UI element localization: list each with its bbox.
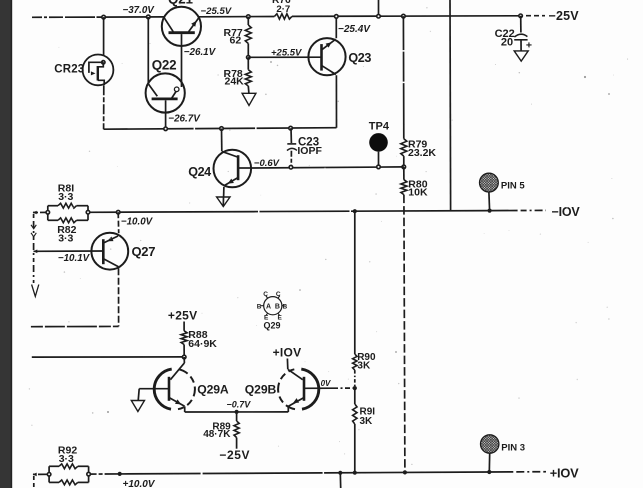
- svg-text:Q21: Q21: [168, 0, 193, 6]
- diode CR23 source hook: [98, 80, 104, 85]
- node junction +10V rail / R91: [353, 471, 357, 475]
- svg-text:−0.6V: −0.6V: [254, 158, 280, 169]
- svg-text:−10.1V: −10.1V: [58, 253, 91, 264]
- node junction R90/R91/Q29B base: [353, 386, 357, 390]
- svg-text:+10.0V: +10.0V: [123, 479, 156, 488]
- wire R91 top lead: [354, 388, 356, 404]
- svg-text:PIN 5: PIN 5: [501, 181, 525, 192]
- node junction top rail / Q23 emitter: [335, 15, 339, 19]
- resistor R78 body: [245, 70, 251, 86]
- wire R90 bottom lead: [354, 370, 356, 388]
- svg-text:−25.4V: −25.4V: [338, 24, 371, 35]
- node junction mid-rail / Q22 emitter: [164, 127, 168, 131]
- capacitor C23 curved plate: [287, 148, 297, 150]
- wire CR23 top lead: [103, 17, 105, 55]
- resistor pair R81/R82 left edge: [47, 206, 49, 221]
- transistor Q27 emitter diagonal: [104, 236, 118, 243]
- wire row to Q29A collector: [32, 356, 184, 358]
- diode CR23 gate path with arrow: [89, 62, 103, 73]
- wire Q29A emitter lead down: [184, 406, 186, 412]
- resistor R82 bottom edge with body: [48, 219, 58, 221]
- capacitor C22 top lead: [520, 16, 522, 33]
- transistor Q29B emitter arrowhead: [293, 398, 299, 403]
- wire R88 bottom lead: [183, 345, 185, 358]
- chevron 2 on left vertical: [31, 233, 36, 237]
- transistor Q24 base diagonal: [222, 151, 238, 157]
- transistor Q29B emitter diagonal: [288, 398, 303, 407]
- wire Q23 collector lead down: [335, 75, 337, 127]
- svg-text:20: 20: [501, 37, 513, 49]
- svg-text:TP4: TP4: [369, 120, 390, 132]
- wire PIN 5 lead: [488, 192, 491, 211]
- node R92/R93 right: [87, 472, 91, 476]
- svg-text:Q27: Q27: [132, 244, 156, 259]
- wire top -25V rail left segment: [32, 16, 164, 18]
- svg-text:B: B: [283, 303, 288, 310]
- svg-text:Q22: Q22: [152, 58, 177, 73]
- wire inside Q24 ground: [222, 197, 224, 206]
- svg-text:64·9K: 64·9K: [188, 338, 217, 350]
- wire R77 bottom lead: [247, 44, 249, 58]
- node junction R77/R78/Q23 base: [247, 56, 251, 60]
- diagram Q29 pin stub right: [282, 305, 285, 307]
- transistor Q27 base bar: [102, 239, 105, 264]
- node junction top rail / top stub: [377, 14, 381, 18]
- transistor Q21 circle: [162, 7, 201, 46]
- wire Q22 left lead from top rail: [147, 17, 149, 84]
- svg-text:Q23: Q23: [348, 51, 371, 65]
- transistor Q29A outer heavy arc (left): [154, 369, 171, 409]
- svg-text:A: A: [266, 304, 271, 311]
- svg-text:3K: 3K: [357, 361, 371, 372]
- svg-text:B: B: [257, 303, 262, 310]
- transistor Q21 emitter diagonal: [189, 17, 200, 31]
- svg-text:+25V: +25V: [168, 309, 198, 323]
- capacitor C23 top lead: [290, 128, 292, 143]
- transistor Q22 collector terminal circle: [174, 87, 179, 92]
- wire Q29 emitter rail (-0.7V): [185, 411, 289, 413]
- svg-text:C: C: [276, 291, 281, 298]
- wire Q24 base lead from mid-rail: [221, 129, 223, 152]
- wire Q27 emitter lead from rail (dashed): [117, 212, 120, 233]
- transistor Q23 emitter diagonal: [322, 39, 336, 50]
- svg-text:R76: R76: [272, 0, 291, 6]
- capacitor C23 straight plate: [287, 143, 296, 145]
- svg-text:3·3: 3·3: [58, 191, 73, 203]
- wire -10V rail left stub: [33, 211, 48, 213]
- wire +10V rail: [89, 472, 490, 474]
- transistor Q21 base bar: [169, 31, 195, 34]
- ground below R78: [242, 93, 256, 105]
- resistor R79 body: [401, 139, 407, 156]
- svg-text:62: 62: [230, 35, 242, 47]
- svg-text:−25V: −25V: [549, 9, 580, 23]
- transistor Q29A base bar: [168, 377, 171, 401]
- wire -10V rail: [88, 211, 490, 213]
- transistor Q23 collector diagonal: [322, 66, 336, 75]
- resistor R88 body: [181, 331, 187, 345]
- wire R78 bottom lead: [247, 86, 250, 93]
- wire R78 top lead: [247, 57, 249, 69]
- svg-text:Q29B: Q29B: [245, 383, 277, 397]
- wire R89 bottom lead: [236, 438, 238, 449]
- wire R88 top lead: [183, 322, 185, 331]
- node junction R79/R80/-0.6V wire: [402, 165, 406, 169]
- svg-text:10K: 10K: [408, 187, 428, 199]
- capacitor C22 curved plate: [514, 34, 527, 37]
- node junction -10V rail / Q27 emitter column: [116, 210, 120, 214]
- transistor Q22 collector diagonal: [172, 92, 176, 99]
- resistor R81 top edge with body: [48, 205, 58, 207]
- svg-text:IOPF: IOPF: [297, 145, 322, 157]
- transistor Q29A dashed arc (right): [178, 369, 195, 409]
- transistor Q29B outer heavy arc (right): [301, 369, 318, 409]
- transistor Q27 circle: [91, 233, 128, 270]
- wire R89 top lead: [236, 412, 238, 421]
- resistor R80 body: [401, 180, 407, 195]
- arrow left end of Q27 base wire: [33, 250, 37, 254]
- arrow left end of +10V rail: [33, 473, 37, 477]
- svg-text:CR23: CR23: [54, 64, 84, 76]
- wire R80 top lead: [403, 167, 405, 180]
- transistor Q22 circle: [146, 73, 185, 112]
- wire Q29A ground branch: [138, 389, 139, 401]
- wire left-edge dashed vertical: [33, 214, 35, 283]
- svg-text:+IOV: +IOV: [550, 466, 579, 481]
- svg-text:0V: 0V: [321, 379, 331, 388]
- svg-text:24K: 24K: [225, 76, 245, 88]
- diagram Q29 pin stub bottom-left: [266, 313, 268, 315]
- resistor pair R81/R82 right edge: [87, 206, 89, 221]
- resistor pair R92/R93 right edge: [88, 466, 90, 482]
- node R92/R93 left: [47, 473, 51, 477]
- resistor R89 body: [234, 421, 239, 438]
- svg-text:3·3: 3·3: [58, 233, 73, 245]
- wire vertical from top edge to rail node: [378, 0, 380, 16]
- diagram Q29 pin stub bottom-right: [278, 313, 280, 315]
- svg-text:+IOV: +IOV: [273, 346, 302, 360]
- transistor Q29B base bar: [303, 377, 306, 401]
- transistor Q29B collector diagonal: [288, 369, 303, 379]
- wire Q23 emitter lead to top rail: [335, 16, 337, 38]
- diode CR23 circle: [83, 55, 114, 86]
- resistor R93 bottom edge with body (clipped): [49, 481, 59, 483]
- node junction +10V rail / PIN3: [487, 470, 491, 474]
- svg-text:Q29: Q29: [264, 321, 281, 331]
- transistor Q24 emitter diagonal: [224, 178, 238, 186]
- transistor Q23 base bar: [320, 44, 323, 71]
- wire left-edge below +10V rail: [33, 476, 35, 488]
- node junction top rail / R77: [247, 15, 251, 19]
- node junction top rail / CR23: [102, 15, 106, 19]
- capacitor C22 bottom lead: [520, 40, 522, 51]
- transistor Q24 collector lead right: [238, 167, 251, 169]
- resistor R92 top edge with body: [49, 465, 59, 467]
- transistor Q21 collector diagonal: [164, 17, 173, 31]
- node R81/R82 left: [46, 211, 50, 215]
- open arrow end of left vertical: [32, 285, 39, 297]
- node junction -10V rail / R90 column: [353, 209, 357, 213]
- node junction emitter rail / R89: [235, 410, 239, 414]
- svg-text:−10.0V: −10.0V: [121, 216, 154, 227]
- svg-text:−IOV: −IOV: [552, 205, 581, 219]
- transistor Q29A emitter diagonal: [169, 398, 184, 407]
- svg-text:48·7K: 48·7K: [203, 429, 231, 440]
- wire R77 top lead: [247, 17, 249, 25]
- transistor Q22 emitter lead down: [165, 100, 167, 129]
- node junction R88 / Q29A collector: [182, 355, 186, 359]
- wire R79 column upper lead: [402, 16, 404, 139]
- svg-text:3K: 3K: [360, 416, 374, 427]
- wire -0.6V row (Q24 collector to R80 node): [251, 167, 404, 168]
- transistor Q24 base bar: [237, 155, 240, 180]
- diode CR23 channel bar: [97, 66, 99, 81]
- transistor Q21 base lead down to Q22: [181, 34, 183, 87]
- svg-text:−37.0V: −37.0V: [123, 5, 156, 16]
- wire top -25V rail right of R76: [292, 15, 521, 18]
- transistor Q24 emitter arrowhead: [228, 179, 234, 184]
- transistor Q29A collector diagonal: [170, 363, 184, 380]
- svg-text:−25.5V: −25.5V: [201, 6, 233, 17]
- diode CR23 anode junction dot: [102, 61, 105, 64]
- arrow left end of -10V rail: [33, 211, 37, 215]
- transistor Q29B base wire to node: [304, 387, 333, 389]
- wire -10V rail dashed stub to label: [490, 209, 546, 211]
- node junction +10V rail / R80 column: [403, 470, 407, 474]
- transistor Q21 emitter arrowhead: [191, 21, 196, 27]
- svg-text:−26.1V: −26.1V: [184, 47, 217, 58]
- ground below C22: [514, 51, 528, 61]
- resistor R91 body: [353, 404, 357, 424]
- node junction TP4 / -0.6V wire: [377, 165, 381, 169]
- svg-text:C: C: [263, 291, 268, 298]
- node junction +10V rail x=340: [338, 471, 342, 475]
- node junction C23 bottom / -0.6V wire: [289, 165, 293, 169]
- resistor R76 (2.7) body: [274, 14, 292, 19]
- capacitor C23 bottom lead: [290, 151, 292, 167]
- transistor Q29A base wire: [139, 388, 169, 390]
- wire CR23 bottom lead (dashed): [103, 85, 105, 129]
- transistor Q22 left diagonal: [149, 84, 158, 96]
- wire -26.7V node rail (Q22 emitter row): [104, 128, 337, 130]
- diagram Q29 pin stub top-right: [278, 296, 280, 298]
- diagram Q29 pinout circle: [264, 297, 282, 315]
- svg-text:23.2K: 23.2K: [408, 147, 436, 159]
- transistor Q27 collector diagonal: [104, 259, 119, 267]
- ground at Q29A base: [131, 401, 144, 412]
- svg-text:−26.7V: −26.7V: [168, 113, 201, 124]
- wire Q27 base wire: [34, 250, 104, 252]
- svg-text:−25V: −25V: [219, 448, 250, 462]
- svg-text:PIN 3: PIN 3: [501, 442, 525, 453]
- diode CR23 drain hook: [98, 62, 104, 67]
- wire R80 bottom long lead to +10V rail: [404, 195, 405, 473]
- svg-text:−0.7V: −0.7V: [227, 400, 252, 410]
- node junction top rail / C22: [519, 14, 523, 18]
- transistor Q23 circle: [308, 38, 345, 75]
- capacitor C22 straight plate: [514, 39, 527, 41]
- svg-text:3·3: 3·3: [59, 453, 74, 465]
- left page-edge dark bar: [0, 0, 12, 488]
- resistor pair R92/R93 left edge: [48, 466, 50, 482]
- node junction top rail / R79 column: [402, 14, 406, 18]
- node junction mid-rail / Q24 base: [220, 127, 224, 131]
- transistor Q29A emitter arrowhead: [175, 399, 181, 404]
- wire Q29A collector stub: [183, 357, 185, 363]
- node junction top rail / Q22 base line: [147, 15, 151, 19]
- transistor Q22 base bar: [152, 98, 178, 101]
- svg-text:Q24: Q24: [188, 165, 211, 179]
- wire long vertical x=450 (top edge to -10V rail): [449, 0, 452, 211]
- wire Q27 collector lead down (dashed): [118, 268, 120, 326]
- wire top rail dashed stub to -25V label: [526, 15, 545, 17]
- wire below +10V rail at x=340: [339, 473, 341, 488]
- diagram Q29 pin stub top-left: [266, 296, 268, 298]
- wire top -25V rail mid segment (Q21 right to R76): [199, 16, 274, 18]
- wire TP4 lead down: [378, 152, 380, 167]
- testpoint TP4 filled circle: [369, 133, 388, 152]
- connector PIN 3 circle (hatched): [481, 435, 499, 453]
- wire Q29B emitter lead down: [287, 406, 289, 412]
- node R81/R82 right: [86, 210, 90, 214]
- transistor Q24 circle: [214, 150, 252, 188]
- transistor Q27 emitter arrowhead: [107, 237, 113, 242]
- resistor R90 body: [353, 354, 357, 370]
- wire +10V rail dashed stub to label: [489, 471, 546, 473]
- transistor Q29B dashed arc (left): [278, 369, 295, 409]
- wire Q23 base wire (+25.5V): [248, 56, 321, 58]
- wire +10V rail left stub: [33, 473, 49, 475]
- svg-text:+25.5V: +25.5V: [271, 47, 302, 58]
- node junction +10V rail right of R92: [118, 472, 122, 476]
- transistor Q23 emitter arrowhead: [326, 42, 332, 47]
- wire R90 upper lead: [354, 211, 356, 354]
- wire PIN 3 lead: [488, 453, 490, 472]
- wire Q27 collector horizontal (dashed): [31, 325, 119, 327]
- connector PIN 5 circle (hatched): [480, 173, 499, 192]
- diagram Q29 pin stub left: [261, 305, 264, 307]
- wire Q29B collector lead: [286, 359, 288, 370]
- wire Q24 emitter lead down: [223, 187, 225, 197]
- node junction -10V rail / PIN5: [488, 209, 492, 213]
- noise specks: [107, 61, 610, 413]
- ground below Q24: [217, 197, 230, 207]
- resistor R77 body: [245, 25, 251, 44]
- wire R91 bottom lead to +10V rail: [354, 424, 356, 473]
- svg-text:B: B: [275, 304, 280, 311]
- svg-text:+: +: [526, 39, 532, 51]
- node junction mid-rail / C23 top: [289, 126, 293, 130]
- chevron 1 on left vertical: [31, 225, 36, 229]
- wire R79 bottom lead: [403, 156, 405, 167]
